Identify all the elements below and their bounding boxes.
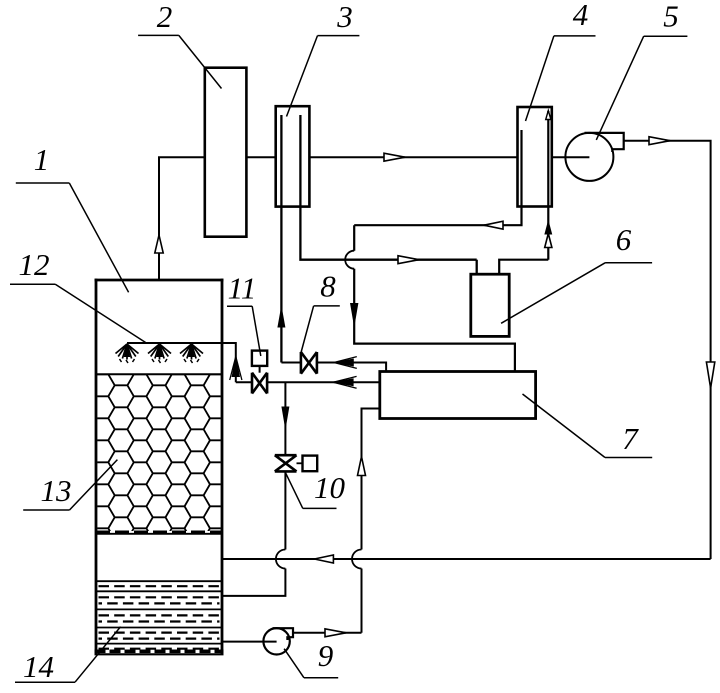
svg-text:9: 9 [318, 638, 334, 673]
svg-text:1: 1 [34, 142, 50, 177]
arrow right on line 3 to 4 [384, 153, 405, 161]
inner tube left wall of 3 / downcomer to valve 8 [280, 115, 282, 363]
inner left wall of 4 / line to bypass [354, 130, 521, 225]
wire: heat exchanger 3 to heater 4 [309, 156, 517, 158]
svg-text:8: 8 [320, 269, 336, 304]
svg-text:7: 7 [622, 421, 639, 456]
arrow down on valve 10 branch [282, 407, 289, 427]
arrow up on tower gas riser [155, 235, 163, 253]
pump 9 [263, 628, 289, 654]
scrubber tower vessel 1 [95, 279, 224, 655]
wire: main return line to tower [222, 558, 711, 560]
dashed liquid layers 14 [99, 585, 220, 587]
inner right wall of 4 / riser from 6 [547, 111, 549, 260]
calorifier 7 [380, 372, 536, 419]
svg-text:6: 6 [616, 222, 632, 257]
wire: fan discharge to right drop [624, 141, 711, 559]
wire: pump discharge [293, 632, 362, 634]
spray nozzle 1 of distributor 12 [116, 343, 139, 363]
arrow down on right drop [706, 362, 714, 388]
fan 5 [565, 133, 613, 181]
crossing hop of pump riser over return line [352, 550, 362, 569]
wire: apparatus 2 to heat exchanger 3 [246, 156, 275, 158]
inner tube right wall of 3 / gas line to apparatus 6 [300, 115, 476, 260]
svg-text:11: 11 [228, 271, 257, 306]
bottom edge of packing [96, 530, 222, 533]
svg-text:12: 12 [19, 247, 50, 282]
arrow right on pump discharge [325, 629, 346, 637]
small arrow inside 4 [546, 111, 551, 120]
wire: 6 outlet up to heater 4 [499, 260, 548, 275]
wire: valve 8 line from downcomer to 7 top [281, 363, 386, 372]
arrow left toward valve 8 [334, 359, 354, 366]
liquid layer separator lines in tower bottom 14 [96, 580, 222, 582]
heater 4 (jacketed) [518, 107, 552, 207]
arrow left toward valve 11 [333, 379, 353, 386]
svg-text:14: 14 [23, 649, 54, 684]
wire: tower top gas riser to apparatus 2 [159, 157, 205, 279]
apparatus 6 [471, 274, 509, 336]
arrow right on fan discharge [649, 137, 670, 145]
apparatus 2 [205, 68, 247, 237]
valve 10 actuator box [303, 456, 318, 472]
crossing hop over gas line [345, 251, 354, 269]
arrow left on bypass line [484, 221, 503, 229]
wire: tower sump to pump suction [222, 641, 277, 643]
arrow down on bypass drop [351, 304, 358, 325]
arrow up on downcomer of 3 [278, 308, 285, 327]
fan inlet line from 4 [552, 156, 590, 158]
wire: valve 11 line to calorifier 7 left [236, 381, 380, 383]
wire: pump discharge riser into 7 left [362, 409, 380, 633]
spray nozzle 3 of distributor 12 [180, 343, 203, 363]
packing support line (top of honeycomb 13) [96, 373, 222, 375]
arrow left on return line [314, 555, 333, 563]
svg-text:3: 3 [336, 0, 353, 34]
arrow up on valve-11 riser [232, 357, 239, 377]
valve 11 actuator box [252, 351, 267, 366]
valve 11 [252, 373, 267, 394]
arrow up on pump riser [358, 457, 366, 476]
arrows up into 4 from 6 [545, 222, 552, 235]
crossing hop of valve 10 branch over return line [276, 550, 286, 569]
tower bottom edge [95, 649, 224, 653]
arrow right on gas line to 6 [398, 256, 419, 264]
svg-text:13: 13 [41, 473, 72, 508]
svg-text:4: 4 [573, 0, 589, 32]
svg-text:10: 10 [314, 470, 346, 505]
heat exchanger 3 (jacketed) [276, 106, 310, 206]
svg-text:2: 2 [157, 0, 173, 34]
valve 10 [275, 455, 297, 471]
valve 8 [301, 352, 317, 374]
spray nozzle 2 of distributor 12 [148, 343, 171, 363]
wire: bypass down into calorifier 7 top [354, 225, 515, 371]
svg-text:5: 5 [663, 0, 679, 34]
drop into apparatus 6 [476, 260, 478, 275]
spray header pipe of tower (node to valve 11 riser) [127, 343, 236, 382]
wire: valve 10 branch down to tower [222, 382, 285, 596]
